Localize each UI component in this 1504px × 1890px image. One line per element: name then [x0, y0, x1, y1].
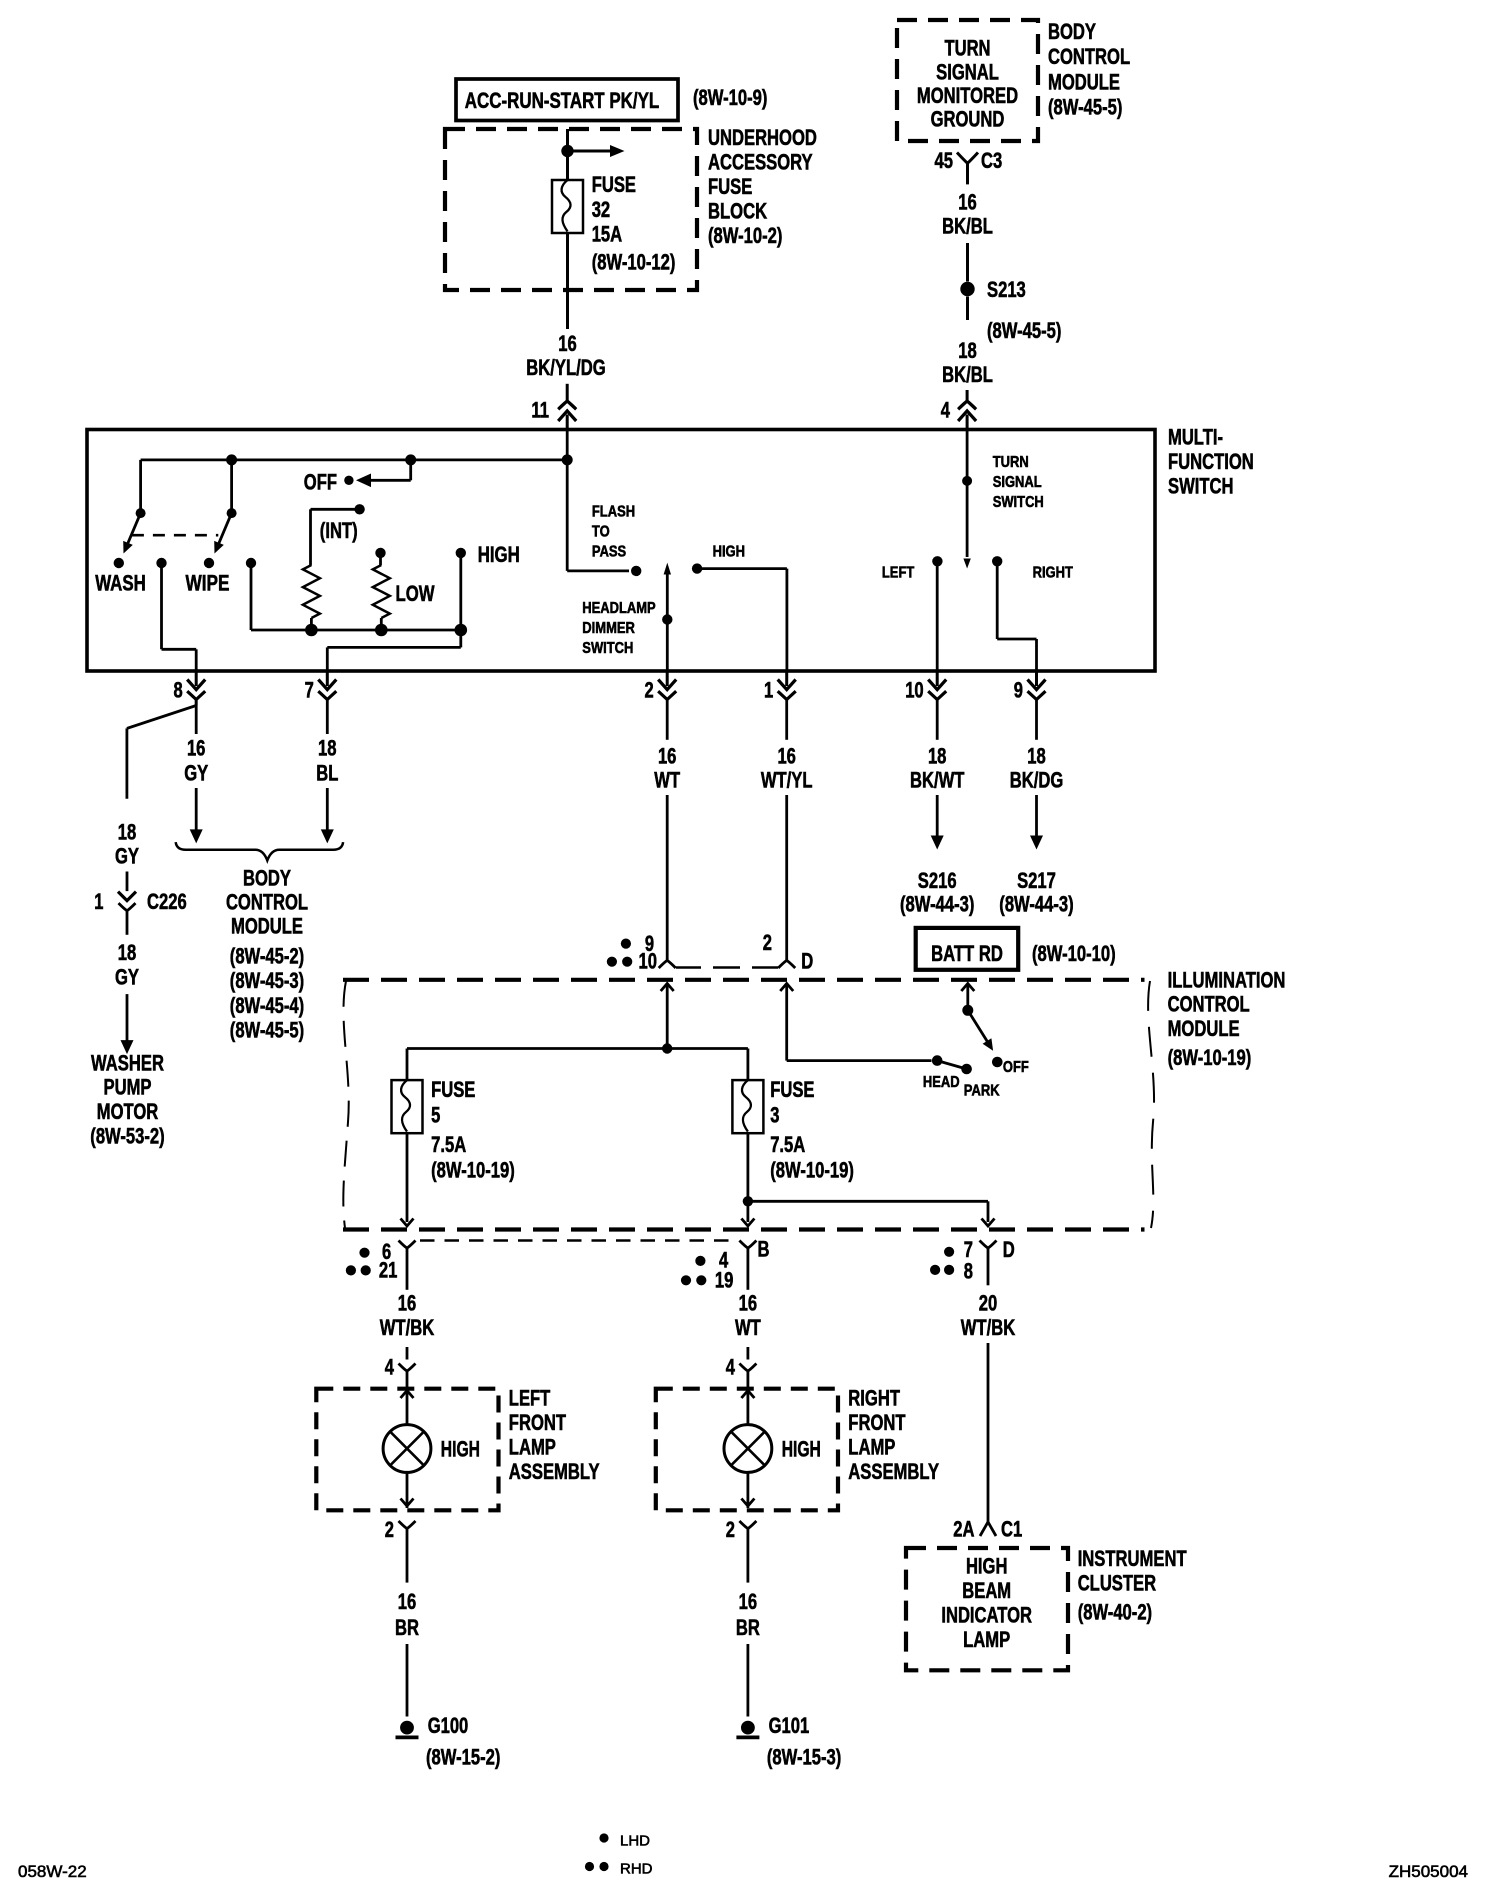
svg-text:(8W-45-5): (8W-45-5)	[230, 1018, 304, 1043]
svg-text:(8W-10-19): (8W-10-19)	[431, 1157, 515, 1182]
svg-text:GY: GY	[115, 843, 139, 868]
svg-text:GY: GY	[115, 964, 139, 989]
svg-text:TO: TO	[592, 524, 610, 541]
svg-text:HIGH: HIGH	[441, 1437, 480, 1462]
svg-text:058W-22: 058W-22	[18, 1862, 87, 1881]
svg-text:MONITORED: MONITORED	[917, 83, 1018, 108]
svg-text:S217: S217	[1017, 868, 1056, 893]
svg-text:PARK: PARK	[964, 1083, 1000, 1100]
svg-text:WT/YL: WT/YL	[761, 768, 813, 793]
svg-text:FRONT: FRONT	[848, 1410, 906, 1435]
svg-text:G101: G101	[769, 1713, 810, 1738]
svg-text:16: 16	[398, 1589, 417, 1614]
svg-text:SIGNAL: SIGNAL	[936, 59, 999, 84]
svg-text:ZH505004: ZH505004	[1389, 1862, 1468, 1881]
svg-text:BK/BL: BK/BL	[942, 214, 993, 239]
svg-text:4: 4	[941, 398, 951, 423]
svg-text:(8W-15-2): (8W-15-2)	[426, 1745, 500, 1770]
svg-text:11: 11	[531, 398, 549, 423]
svg-text:(8W-15-3): (8W-15-3)	[767, 1745, 841, 1770]
svg-text:GY: GY	[184, 761, 208, 786]
svg-text:FUSE: FUSE	[592, 172, 636, 197]
svg-text:8: 8	[174, 678, 183, 703]
svg-text:INDICATOR: INDICATOR	[941, 1603, 1032, 1628]
svg-text:20: 20	[979, 1290, 998, 1315]
svg-text:PASS: PASS	[592, 544, 627, 561]
svg-text:BK/YL/DG: BK/YL/DG	[526, 355, 605, 380]
svg-text:32: 32	[592, 197, 611, 222]
svg-text:(8W-44-3): (8W-44-3)	[900, 891, 974, 916]
svg-text:MULTI-: MULTI-	[1168, 425, 1223, 450]
svg-text:(8W-44-3): (8W-44-3)	[999, 891, 1073, 916]
svg-text:18: 18	[958, 338, 977, 363]
svg-text:FLASH: FLASH	[592, 504, 635, 521]
svg-text:WIPE: WIPE	[186, 571, 230, 596]
svg-text:BK/WT: BK/WT	[910, 768, 965, 793]
svg-text:MODULE: MODULE	[231, 914, 303, 939]
svg-text:ASSEMBLY: ASSEMBLY	[848, 1459, 939, 1484]
svg-text:BK/DG: BK/DG	[1010, 768, 1064, 793]
svg-text:G100: G100	[428, 1713, 469, 1738]
svg-text:MOTOR: MOTOR	[97, 1099, 159, 1124]
svg-text:2: 2	[726, 1517, 735, 1542]
svg-text:HIGH: HIGH	[782, 1437, 821, 1462]
svg-text:D: D	[1003, 1237, 1015, 1262]
svg-text:(8W-45-5): (8W-45-5)	[987, 318, 1061, 343]
svg-text:(8W-10-12): (8W-10-12)	[592, 250, 676, 275]
svg-text:4: 4	[385, 1354, 395, 1379]
svg-text:15A: 15A	[592, 221, 623, 246]
svg-text:RIGHT: RIGHT	[848, 1385, 900, 1410]
svg-text:BL: BL	[316, 761, 338, 786]
svg-text:4: 4	[726, 1354, 736, 1379]
svg-text:16: 16	[658, 744, 677, 769]
svg-text:FUSE: FUSE	[770, 1077, 814, 1102]
svg-text:18: 18	[1027, 744, 1046, 769]
svg-text:WT/BK: WT/BK	[961, 1315, 1015, 1340]
svg-text:S213: S213	[987, 277, 1026, 302]
svg-text:(8W-45-5): (8W-45-5)	[1048, 95, 1122, 120]
svg-text:C1: C1	[1001, 1516, 1022, 1541]
svg-text:CLUSTER: CLUSTER	[1078, 1571, 1156, 1596]
svg-text:7.5A: 7.5A	[431, 1132, 466, 1157]
svg-text:7: 7	[305, 678, 314, 703]
svg-text:10: 10	[905, 678, 924, 703]
svg-text:HEADLAMP: HEADLAMP	[582, 600, 656, 617]
svg-text:18: 18	[928, 744, 947, 769]
svg-text:LAMP: LAMP	[848, 1434, 895, 1459]
svg-text:(8W-10-2): (8W-10-2)	[708, 223, 782, 248]
svg-text:OFF: OFF	[1003, 1059, 1029, 1076]
svg-text:HIGH: HIGH	[966, 1554, 1008, 1579]
svg-text:16: 16	[777, 744, 796, 769]
svg-text:16: 16	[187, 736, 206, 761]
svg-text:21: 21	[379, 1257, 398, 1282]
svg-text:ACC-RUN-START PK/YL: ACC-RUN-START PK/YL	[465, 88, 660, 113]
svg-text:18: 18	[318, 736, 337, 761]
svg-text:TURN: TURN	[944, 36, 990, 61]
svg-text:(8W-10-19): (8W-10-19)	[1168, 1045, 1252, 1070]
svg-text:B: B	[758, 1236, 770, 1261]
svg-text:DIMMER: DIMMER	[582, 620, 635, 637]
svg-text:5: 5	[431, 1102, 440, 1127]
svg-text:(8W-10-9): (8W-10-9)	[693, 85, 767, 110]
svg-text:FRONT: FRONT	[509, 1410, 567, 1435]
svg-text:OFF: OFF	[304, 470, 337, 495]
svg-text:CONTROL: CONTROL	[1168, 992, 1250, 1017]
svg-text:FUSE: FUSE	[708, 174, 752, 199]
svg-text:LEFT: LEFT	[509, 1385, 551, 1410]
svg-text:LEFT: LEFT	[882, 565, 915, 582]
svg-text:ILLUMINATION: ILLUMINATION	[1168, 967, 1286, 992]
svg-text:BK/BL: BK/BL	[942, 362, 993, 387]
svg-text:18: 18	[118, 940, 137, 965]
svg-text:WASH: WASH	[95, 571, 146, 596]
svg-text:WASHER: WASHER	[91, 1050, 164, 1075]
svg-text:3: 3	[770, 1102, 779, 1127]
svg-text:MODULE: MODULE	[1168, 1016, 1240, 1041]
svg-text:FUNCTION: FUNCTION	[1168, 449, 1254, 474]
svg-text:SIGNAL: SIGNAL	[993, 474, 1042, 491]
svg-text:FUSE: FUSE	[431, 1077, 475, 1102]
svg-text:CONTROL: CONTROL	[1048, 44, 1130, 69]
svg-text:SWITCH: SWITCH	[582, 640, 633, 657]
svg-text:(8W-45-3): (8W-45-3)	[230, 968, 304, 993]
svg-text:2: 2	[385, 1517, 394, 1542]
svg-text:(8W-45-2): (8W-45-2)	[230, 943, 304, 968]
svg-text:(INT): (INT)	[320, 518, 358, 543]
svg-text:16: 16	[398, 1290, 417, 1315]
svg-text:CONTROL: CONTROL	[226, 890, 308, 915]
svg-text:C226: C226	[147, 889, 187, 914]
svg-text:9: 9	[1014, 678, 1023, 703]
svg-text:BODY: BODY	[1048, 19, 1096, 44]
svg-text:8: 8	[964, 1258, 973, 1283]
svg-text:INSTRUMENT: INSTRUMENT	[1078, 1546, 1187, 1571]
svg-text:(8W-40-2): (8W-40-2)	[1078, 1599, 1152, 1624]
svg-text:2: 2	[645, 678, 654, 703]
svg-text:WT/BK: WT/BK	[380, 1315, 434, 1340]
svg-text:GROUND: GROUND	[931, 107, 1005, 132]
svg-text:10: 10	[639, 949, 658, 974]
svg-text:(8W-10-19): (8W-10-19)	[770, 1157, 854, 1182]
svg-text:ACCESSORY: ACCESSORY	[708, 150, 813, 175]
svg-text:TURN: TURN	[993, 454, 1029, 471]
svg-text:WT: WT	[735, 1315, 761, 1340]
svg-text:19: 19	[715, 1267, 734, 1292]
svg-text:HIGH: HIGH	[478, 542, 520, 567]
svg-text:HEAD: HEAD	[923, 1074, 960, 1091]
svg-text:MODULE: MODULE	[1048, 69, 1120, 94]
svg-text:2: 2	[763, 930, 772, 955]
svg-text:ASSEMBLY: ASSEMBLY	[509, 1459, 600, 1484]
svg-text:BR: BR	[736, 1615, 760, 1640]
svg-text:45: 45	[935, 148, 954, 173]
svg-text:BATT RD: BATT RD	[931, 941, 1003, 966]
svg-text:1: 1	[764, 678, 773, 703]
svg-text:D: D	[801, 949, 813, 974]
svg-text:RIGHT: RIGHT	[1033, 565, 1073, 582]
svg-text:LHD: LHD	[620, 1833, 650, 1850]
svg-text:SWITCH: SWITCH	[1168, 474, 1234, 499]
svg-text:2A: 2A	[953, 1516, 974, 1541]
svg-text:16: 16	[958, 190, 977, 215]
svg-text:1: 1	[94, 889, 103, 914]
svg-text:(8W-10-10): (8W-10-10)	[1032, 941, 1116, 966]
svg-text:SWITCH: SWITCH	[993, 494, 1044, 511]
svg-text:16: 16	[558, 331, 577, 356]
svg-text:S216: S216	[918, 868, 957, 893]
svg-text:(8W-45-4): (8W-45-4)	[230, 993, 304, 1018]
svg-text:BLOCK: BLOCK	[708, 199, 767, 224]
svg-text:18: 18	[118, 820, 137, 845]
svg-text:BEAM: BEAM	[962, 1578, 1011, 1603]
svg-text:16: 16	[739, 1290, 758, 1315]
svg-text:LAMP: LAMP	[509, 1434, 556, 1459]
svg-text:BODY: BODY	[243, 866, 291, 891]
svg-text:LOW: LOW	[396, 581, 435, 606]
svg-text:C3: C3	[981, 148, 1002, 173]
svg-text:16: 16	[739, 1589, 758, 1614]
svg-text:PUMP: PUMP	[104, 1075, 152, 1100]
svg-text:(8W-53-2): (8W-53-2)	[90, 1123, 164, 1148]
svg-text:RHD: RHD	[620, 1861, 653, 1878]
svg-text:UNDERHOOD: UNDERHOOD	[708, 125, 817, 150]
svg-text:7.5A: 7.5A	[770, 1132, 805, 1157]
svg-text:WT: WT	[654, 768, 680, 793]
svg-text:HIGH: HIGH	[713, 544, 745, 561]
svg-text:BR: BR	[395, 1615, 419, 1640]
svg-text:LAMP: LAMP	[963, 1627, 1010, 1652]
